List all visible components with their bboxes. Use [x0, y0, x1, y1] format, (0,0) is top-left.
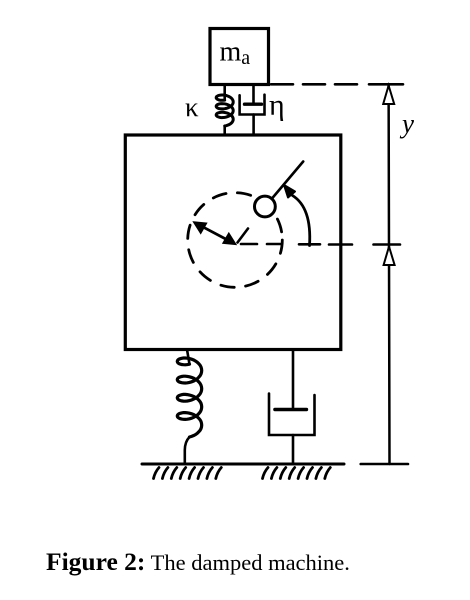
ground hatching left [154, 468, 160, 479]
ground line [142, 463, 344, 466]
dashed centre line seg3 (arc foot) [299, 243, 320, 246]
eccentric mass small circle [255, 196, 276, 217]
dimension line vertical [387, 85, 390, 464]
tick at top of dimension line [369, 83, 403, 86]
caption [46, 547, 350, 577]
wire: machine box to bottom damper rod [292, 350, 295, 408]
svg-text:η: η [269, 89, 285, 122]
rotation arc [293, 196, 310, 246]
dashed centre line seg2 [267, 243, 281, 246]
svg-text:y: y [399, 109, 414, 139]
wire: bottom damper to ground [292, 435, 295, 464]
wire: bottom spring to ground [185, 437, 190, 464]
arrowhead lower-right at centre [223, 233, 237, 245]
ground hatching right [263, 468, 269, 479]
bottom spring coil [177, 358, 201, 437]
damper eta cylinder cup [240, 95, 265, 115]
wire: damper cup to machine box [252, 115, 255, 136]
svg-text:κ: κ [185, 92, 199, 122]
dimension open arrowhead mid [384, 247, 395, 266]
bottom tick of dimension [361, 463, 408, 466]
rotor dashed circle [188, 193, 283, 288]
tick crossing dimension line mid [374, 243, 401, 246]
bottom damper cylinder cup [269, 394, 315, 435]
arrowhead upper-left [193, 222, 207, 234]
rotor radius line outer segment [272, 162, 303, 199]
wire: mass to damper piston rod [252, 85, 255, 105]
dimension open arrowhead top [383, 86, 394, 105]
wire: top spring to machine box [223, 126, 226, 135]
machine box [125, 135, 340, 350]
spring K top coil [216, 95, 233, 126]
tick crossing machine box edge [329, 243, 352, 246]
mass block m_a [210, 29, 269, 85]
wire: machine box to bottom spring [187, 350, 190, 365]
dashed centre line seg1 [241, 243, 257, 246]
eccentricity double arrow shaft [197, 224, 233, 243]
rotation arc arrowhead [284, 185, 295, 198]
damper eta piston bar [245, 102, 262, 105]
bottom damper piston bar [275, 408, 307, 411]
wire: mass to top spring [223, 85, 226, 101]
svg-text:ma: ma [220, 37, 251, 69]
rotor radius line inner segment [238, 229, 249, 243]
dashed reference line at mass level [271, 83, 358, 86]
